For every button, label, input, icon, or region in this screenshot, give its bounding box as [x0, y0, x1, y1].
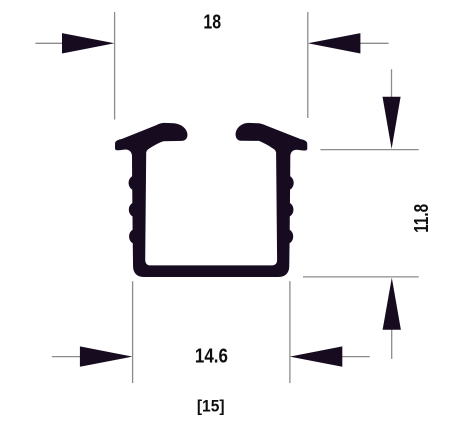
svg-text:18: 18 — [203, 11, 221, 33]
svg-text:[15]: [15] — [197, 397, 225, 416]
svg-text:14.6: 14.6 — [195, 346, 228, 368]
svg-text:11.8: 11.8 — [411, 204, 433, 233]
